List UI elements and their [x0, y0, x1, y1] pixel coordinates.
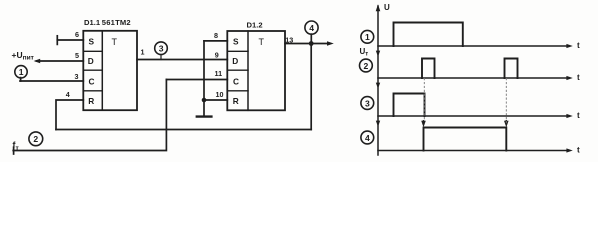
- wire pin8 S input D1.2: [204, 40, 227, 42]
- wire pin4 R input D1.1: [56, 100, 83, 130]
- D1.2 C/R divider: [227, 90, 248, 92]
- svg-text:t: t: [577, 73, 580, 82]
- wire pin5 D input D1.1 (+U supply): [37, 60, 84, 62]
- axis arrow up: [376, 4, 381, 11]
- svg-text:+Uпит: +Uпит: [12, 50, 35, 61]
- svg-text:9: 9: [215, 51, 219, 60]
- node circle 4 timing: [361, 131, 374, 144]
- axis arrow below baseline3: [376, 121, 380, 127]
- pulse row2 second: [505, 59, 518, 79]
- wire node4 tick: [310, 34, 312, 41]
- dashed timing line left: [423, 79, 425, 121]
- svg-text:5: 5: [75, 51, 79, 60]
- axis arrow below baseline2: [376, 83, 380, 89]
- junction dot node4: [309, 41, 314, 46]
- svg-text:3: 3: [75, 72, 79, 81]
- svg-text:561ТМ2: 561ТМ2: [102, 18, 131, 27]
- baseline row1 t-axis: [378, 45, 569, 47]
- wire pin13 output D1.2: [285, 43, 329, 45]
- baseline row4 t-axis: [378, 150, 569, 152]
- pulse row1: [394, 23, 463, 47]
- ground: [197, 115, 212, 117]
- dashed timing line right: [505, 79, 507, 126]
- pulse row3: [394, 94, 425, 117]
- terminal bar pin6: [56, 36, 58, 45]
- trigger arrow row4 left: [421, 121, 426, 127]
- svg-text:4: 4: [309, 23, 314, 33]
- svg-text:S: S: [233, 37, 239, 47]
- svg-text:R: R: [88, 96, 94, 106]
- svg-text:4: 4: [365, 133, 370, 143]
- svg-text:D1.2: D1.2: [247, 20, 263, 29]
- node circle 1: [15, 66, 27, 78]
- svg-text:C: C: [233, 77, 239, 87]
- axis arrow below baseline1: [376, 51, 380, 57]
- svg-text:S: S: [89, 37, 95, 47]
- svg-text:4: 4: [66, 90, 70, 99]
- D1.1 C/R divider: [83, 90, 102, 92]
- D1.2 S/D divider: [227, 50, 248, 52]
- flip-flop D1.1 body: [83, 31, 137, 110]
- svg-text:D1.1: D1.1: [84, 18, 101, 27]
- junction dot pin10: [202, 98, 207, 103]
- timing diagram: [360, 4, 573, 155]
- pulse row4: [424, 128, 507, 151]
- svg-text:13: 13: [285, 36, 293, 45]
- svg-text:2: 2: [364, 61, 369, 71]
- svg-text:t: t: [577, 145, 580, 154]
- wire pin10 R input D1.2: [204, 99, 227, 101]
- svg-text:U: U: [384, 3, 390, 12]
- svg-text:D: D: [232, 56, 238, 66]
- baseline row2 t-axis: [378, 77, 569, 79]
- axis U vertical: [377, 6, 379, 155]
- terminal tick ft: [13, 147, 15, 154]
- svg-text:3: 3: [365, 98, 370, 108]
- wire ft input: [13, 80, 166, 151]
- wire pin1 output D1.1 to pin9 D input D1.2: [137, 59, 227, 61]
- svg-text:R: R: [233, 96, 239, 106]
- node circle 4: [305, 21, 318, 34]
- svg-text:Uт: Uт: [360, 47, 369, 58]
- D1.1 S/D divider: [83, 50, 102, 52]
- D1.1 column divider: [101, 31, 103, 110]
- svg-text:D: D: [88, 56, 94, 66]
- wire pin3 C input D1.1: [20, 80, 83, 82]
- baseline row3 t-axis: [378, 115, 569, 117]
- svg-text:T: T: [112, 37, 118, 47]
- svg-text:11: 11: [215, 69, 223, 78]
- svg-text:T: T: [259, 37, 265, 47]
- arrow output: [327, 41, 334, 45]
- svg-text:C: C: [89, 77, 95, 87]
- node circle 2 timing: [360, 59, 373, 72]
- wire ground riser: [203, 41, 205, 116]
- svg-text:10: 10: [216, 90, 224, 99]
- D1.2 D/C divider: [227, 69, 248, 71]
- svg-text:2: 2: [33, 134, 38, 144]
- svg-text:t: t: [577, 111, 580, 120]
- node circle 3 timing: [361, 97, 374, 110]
- D1.2 column divider: [247, 31, 249, 110]
- svg-text:6: 6: [75, 30, 79, 39]
- D1.1 D/C divider: [83, 69, 102, 71]
- svg-text:t: t: [577, 41, 580, 50]
- svg-text:3: 3: [159, 44, 164, 54]
- wire feedback bottom: [56, 129, 311, 131]
- wire node1 tick: [20, 78, 22, 81]
- arrow +U supply: [34, 59, 41, 63]
- node circle 1 timing: [361, 30, 374, 43]
- wire pin11 C input D1.2: [166, 79, 227, 81]
- svg-text:1: 1: [365, 32, 370, 42]
- svg-text:8: 8: [214, 31, 218, 40]
- svg-text:1: 1: [19, 67, 24, 77]
- flip-flop D1.2 body: [227, 31, 285, 110]
- wire node3 tick: [160, 55, 162, 60]
- node circle 3: [155, 42, 168, 55]
- node circle 2: [29, 132, 43, 146]
- wire pin6 S input D1.1: [57, 39, 83, 41]
- pulse row2 first: [422, 59, 435, 79]
- svg-text:1: 1: [141, 48, 145, 57]
- trigger arrow row4 right: [504, 121, 509, 127]
- wire feedback riser right: [310, 44, 312, 130]
